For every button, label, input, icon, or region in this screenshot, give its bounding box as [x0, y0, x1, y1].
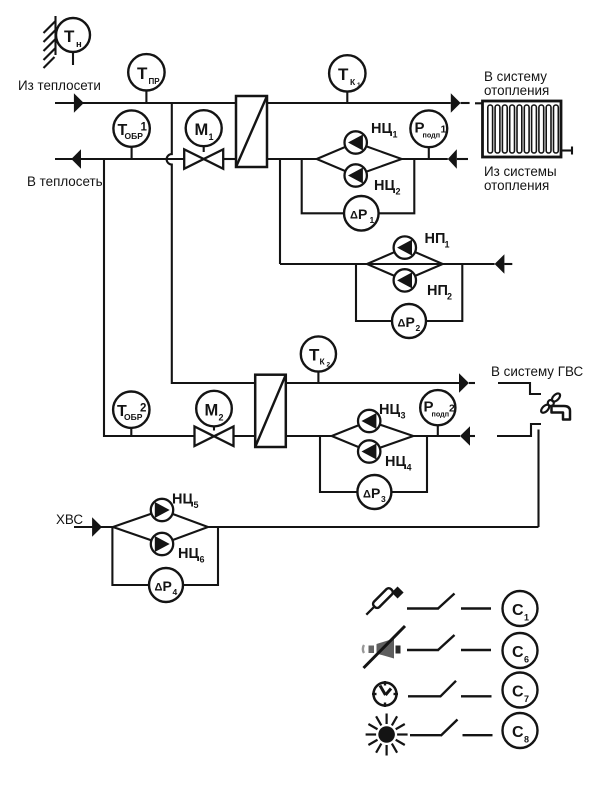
svg-text:Δ: Δ	[350, 210, 358, 222]
svg-text:1: 1	[441, 124, 447, 136]
svg-text:3: 3	[381, 494, 386, 504]
svg-text:1: 1	[141, 122, 148, 134]
pump НЦ2	[345, 164, 367, 186]
flow arrow return to network	[71, 149, 81, 169]
DHW supply pipe	[286, 382, 460, 384]
svg-text:Р: Р	[406, 314, 415, 330]
svg-text:2: 2	[416, 323, 421, 333]
svg-text:В систему ГВС: В систему ГВС	[491, 364, 583, 379]
flow arrow to DHW	[459, 373, 469, 393]
bypass with dP2	[356, 264, 392, 321]
svg-text:6: 6	[524, 655, 529, 665]
heat exchanger 2	[255, 375, 286, 447]
sensor ТК2	[301, 336, 336, 383]
faucet icon	[540, 392, 570, 420]
svg-text:1: 1	[209, 132, 214, 142]
svg-text:С: С	[512, 684, 524, 701]
svg-text:НП: НП	[427, 283, 448, 299]
svg-text:2: 2	[449, 403, 455, 415]
svg-text:В теплосеть: В теплосеть	[27, 174, 103, 189]
branch to makeup pumps	[279, 159, 281, 264]
sensor ТОБР1	[113, 110, 149, 159]
svg-text:Т: Т	[137, 64, 148, 83]
heat exchanger 1	[236, 96, 267, 167]
sensor ΔР2	[392, 304, 426, 338]
pump group НП1/НП2 diamond	[367, 248, 443, 281]
svg-text:Р: Р	[358, 206, 367, 222]
branch riser from supply to HX2 with bridge over return pipe	[167, 103, 256, 383]
sensor TН outdoor temperature	[56, 18, 90, 65]
sensor РПОДП2	[420, 390, 455, 436]
svg-text:5: 5	[194, 500, 199, 510]
legend row C8: sun icon	[366, 713, 538, 756]
svg-text:подп: подп	[432, 410, 450, 419]
svg-text:отопления: отопления	[484, 83, 549, 98]
makeup pipe	[280, 263, 495, 265]
svg-text:Δ: Δ	[398, 318, 406, 330]
return pipe from HX1 to pump group	[267, 158, 317, 160]
pump НЦ6	[151, 533, 173, 555]
svg-text:Т: Т	[338, 65, 349, 84]
valve M1	[184, 110, 223, 169]
pump НЦ1	[345, 131, 367, 153]
svg-text:ПР: ПР	[149, 77, 161, 86]
svg-text:ХВС: ХВС	[56, 512, 83, 527]
svg-text:1: 1	[357, 82, 361, 89]
svg-text:К: К	[320, 357, 326, 367]
svg-text:В систему: В систему	[484, 69, 547, 84]
svg-text:1: 1	[445, 240, 450, 250]
circuit C7	[503, 673, 538, 708]
bypass with dP1	[302, 159, 344, 213]
svg-text:1: 1	[370, 215, 375, 225]
svg-text:2: 2	[219, 412, 224, 422]
wall hatching	[44, 16, 56, 68]
pump group НЦ1/НЦ2 diamond	[317, 143, 402, 176]
DHW boundary bracket top	[498, 383, 541, 394]
bypass with dP4	[112, 527, 149, 585]
svg-text:7: 7	[524, 694, 529, 704]
return pipe to network	[55, 158, 185, 160]
svg-text:Из системы: Из системы	[484, 164, 557, 179]
flow arrow DHW return	[460, 426, 470, 445]
svg-text:НЦ: НЦ	[379, 402, 400, 418]
svg-text:2: 2	[396, 187, 401, 197]
svg-text:НЦ: НЦ	[385, 454, 406, 470]
sensor ΔР1	[344, 196, 379, 231]
sensor ΔР3	[357, 475, 391, 509]
svg-text:НЦ: НЦ	[178, 546, 199, 562]
pipe M2 to HX2	[233, 435, 255, 437]
pump group НЦ5/НЦ6 diamond	[113, 510, 208, 544]
svg-text:4: 4	[173, 587, 178, 597]
sensor ТК1	[329, 55, 365, 103]
pump НЦ4	[358, 440, 380, 462]
sensor РПОДП1	[410, 110, 447, 159]
switch C6	[407, 649, 439, 651]
circuit C1	[503, 591, 538, 626]
pump group НЦ3/НЦ4 diamond	[332, 421, 414, 452]
svg-text:НЦ: НЦ	[374, 178, 395, 194]
supply pipe to heating system	[267, 102, 451, 104]
flow arrow makeup	[495, 254, 505, 273]
cold water pipe	[74, 526, 113, 528]
sensor ТОБР2	[113, 392, 149, 437]
svg-text:К: К	[350, 77, 356, 87]
cold water riser	[537, 430, 539, 528]
DHW boundary bracket bottom	[497, 424, 541, 436]
switch C1	[407, 607, 439, 609]
flow arrow cold water	[92, 517, 102, 537]
supply pipe from network	[55, 102, 236, 104]
svg-text:подп: подп	[423, 131, 441, 140]
cold water pipe to DHW return	[208, 526, 539, 528]
svg-text:С: С	[512, 602, 524, 619]
pump НЦ5	[151, 499, 173, 521]
svg-text:Т: Т	[309, 346, 320, 365]
legend row C1: key icon	[364, 582, 538, 626]
svg-text:С: С	[512, 724, 524, 741]
legend row C7: clock icon	[372, 673, 538, 708]
circuit C6	[503, 633, 538, 668]
DHW return pipe	[286, 435, 332, 437]
flow arrow supply	[74, 93, 84, 113]
svg-text:8: 8	[524, 735, 529, 745]
sensor ТПР	[128, 54, 164, 103]
svg-text:1: 1	[393, 130, 398, 140]
svg-text:Р: Р	[371, 485, 380, 501]
svg-text:НЦ: НЦ	[172, 492, 193, 508]
svg-text:3: 3	[401, 411, 406, 421]
pump НП1	[394, 236, 416, 258]
radiator (heating system)	[483, 101, 573, 157]
svg-text:2: 2	[140, 403, 146, 415]
svg-text:С: С	[512, 644, 524, 661]
svg-text:2: 2	[447, 292, 452, 302]
branch down from return to HX2 circuit	[104, 159, 194, 436]
svg-text:Δ: Δ	[155, 582, 163, 594]
pump НЦ3	[358, 410, 380, 432]
svg-text:2: 2	[327, 362, 331, 369]
svg-text:М: М	[205, 401, 219, 419]
svg-text:Р: Р	[163, 578, 172, 594]
svg-text:Из теплосети: Из теплосети	[18, 78, 101, 93]
svg-text:НЦ: НЦ	[371, 121, 392, 137]
switch C7	[408, 695, 441, 697]
valve M2	[195, 391, 234, 446]
pump НП2	[394, 269, 416, 291]
svg-text:НП: НП	[425, 231, 446, 247]
svg-text:1: 1	[524, 613, 529, 623]
circuit C8	[503, 713, 538, 748]
radiator stub	[475, 102, 483, 104]
svg-text:Δ: Δ	[363, 489, 371, 501]
flow arrow from heating system	[448, 149, 457, 168]
bypass with dP3	[320, 436, 357, 492]
svg-text:6: 6	[200, 555, 205, 565]
return pipe from heating system	[402, 158, 448, 160]
svg-text:Т: Т	[64, 27, 75, 46]
legend row C6: muted horn icon	[363, 626, 538, 668]
switch C8	[410, 734, 442, 736]
svg-text:М: М	[195, 121, 209, 139]
sensor ΔР4	[149, 568, 183, 602]
svg-text:отопления: отопления	[484, 178, 549, 193]
svg-text:н: н	[76, 39, 82, 50]
flow arrow to heating system	[451, 93, 461, 113]
svg-text:4: 4	[407, 463, 412, 473]
